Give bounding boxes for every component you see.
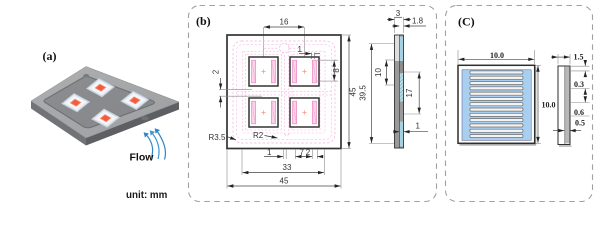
chip TR — [290, 57, 319, 86]
dim 8 line — [333, 61, 335, 81]
dim 1 top-right: ext lines — [311, 53, 313, 60]
C side bar — [558, 66, 570, 145]
recessed area — [44, 76, 155, 128]
svg-text:1: 1 — [267, 148, 272, 157]
hatched segment — [400, 73, 404, 102]
svg-text:R2: R2 — [253, 131, 264, 140]
inlet hole top — [83, 74, 89, 77]
C dim 1.5: ext lines — [557, 54, 559, 65]
C blue area — [462, 70, 531, 141]
pink U-turn bottom center — [285, 134, 289, 136]
C dim 10.0 top: ext lines — [457, 50, 459, 64]
extension line 16 right (through TR chip center) — [304, 27, 306, 72]
dim 17 line — [418, 73, 420, 114]
svg-text:2: 2 — [306, 148, 311, 157]
C dim 0.6 arrows — [584, 97, 586, 102]
dim 17: ext lines — [404, 71, 421, 73]
chip TL — [249, 57, 278, 86]
inlet circle top center — [280, 43, 290, 53]
bottom connectors — [244, 132, 284, 134]
side view glass column — [395, 35, 400, 148]
extension line 16 left (through TL chip center) — [263, 27, 265, 72]
dim 10: ext lines — [385, 59, 394, 61]
plate side face lower-left — [31, 101, 86, 146]
chip top — [87, 79, 114, 97]
pink channel horizontal lines middle — [237, 91, 331, 93]
flow arrows — [144, 128, 166, 159]
dim 3: ext lines — [394, 17, 396, 33]
dim 1 leader line with arrow — [299, 53, 311, 55]
C dim 1.5 line — [551, 56, 558, 58]
chip right — [122, 92, 149, 110]
C side bar bottom shadow — [559, 145, 572, 147]
outer pink contour — [233, 41, 335, 143]
svg-text:45: 45 — [280, 177, 289, 186]
dim 1.8 — [392, 25, 399, 27]
svg-text:33: 33 — [283, 163, 292, 172]
inner pink contour — [237, 45, 332, 140]
panel b dashed border — [189, 6, 437, 202]
svg-text:0.5: 0.5 — [575, 119, 585, 128]
dim 45 line — [228, 185, 341, 187]
svg-text:2: 2 — [212, 69, 221, 74]
svg-text:R3.5: R3.5 — [209, 133, 226, 142]
right 45 dim: ext lines — [341, 34, 351, 36]
chip BL — [249, 98, 278, 127]
C dim 10.0 right line — [537, 66, 539, 143]
svg-text:0.3: 0.3 — [574, 80, 584, 89]
svg-text:10: 10 — [374, 68, 383, 77]
dim 2 vertical line with outside arrows — [220, 78, 222, 89]
dark segment — [400, 61, 404, 73]
svg-text:1: 1 — [298, 45, 303, 54]
chip symbol — [62, 79, 148, 127]
outlet hole right — [141, 116, 149, 120]
side view right column segments — [400, 35, 404, 148]
panel C dashed border — [446, 6, 593, 202]
svg-text:(C): (C) — [458, 15, 475, 29]
svg-text:(b): (b) — [196, 14, 211, 28]
C dim 10.0 top line — [459, 58, 535, 60]
blue segment bottom — [400, 122, 404, 147]
dim 1 bottom side — [394, 131, 399, 133]
dim 2 left: ext lines — [219, 89, 252, 91]
dim 45 right line — [348, 36, 350, 149]
dim line 16 — [264, 26, 304, 28]
39.5 dim ext lines — [369, 43, 394, 45]
chip BR — [290, 98, 319, 127]
dim 45 bottom: ext lines — [226, 149, 228, 189]
svg-text:1.5: 1.5 — [574, 53, 584, 62]
bottom dims: ext lines — [283, 149, 285, 159]
svg-text:1.8: 1.8 — [412, 17, 424, 26]
plate side face lower-right — [86, 102, 179, 146]
svg-text:1: 1 — [416, 122, 421, 131]
svg-text:39.5: 39.5 — [359, 85, 368, 101]
svg-text:10.0: 10.0 — [490, 51, 504, 60]
C shadow bottom/right — [460, 144, 537, 146]
side view outline — [395, 35, 404, 148]
svg-text:10.0: 10.0 — [542, 101, 556, 110]
C dim 0.3 arrows — [584, 61, 586, 66]
svg-text:3: 3 — [396, 9, 401, 18]
svg-text:8: 8 — [332, 68, 341, 73]
inlet side dashes — [264, 47, 279, 49]
svg-text:Flow: Flow — [130, 152, 155, 164]
dim 39.5 line — [371, 44, 373, 143]
dim 3 line outside arrows — [387, 19, 394, 21]
dim 8 right: ext lines — [317, 59, 338, 61]
chip bottom — [92, 109, 119, 127]
C stripes serpentine — [470, 71, 523, 138]
chip left — [62, 94, 89, 112]
C outer square — [458, 65, 535, 143]
svg-text:17: 17 — [405, 88, 414, 97]
svg-text:(a): (a) — [43, 49, 57, 63]
svg-text:unit: mm: unit: mm — [126, 190, 168, 201]
dim 33: ext lines — [241, 149, 243, 175]
pink channel wall lines (columns) — [243, 51, 325, 134]
svg-text:0.6: 0.6 — [574, 108, 584, 117]
C right ext lines — [571, 65, 590, 67]
top connectors — [244, 50, 284, 52]
svg-text:45: 45 — [349, 87, 358, 96]
svg-text:7: 7 — [300, 148, 305, 157]
big square 45x45 — [227, 35, 341, 149]
dim 10 line — [385, 61, 387, 85]
dim 33 line — [243, 172, 324, 174]
plate top surface — [31, 67, 179, 139]
C side bar layered column — [565, 66, 570, 145]
C dim 0.5 arrows — [553, 130, 564, 132]
svg-text:16: 16 — [280, 18, 289, 27]
blue segment top — [400, 37, 404, 62]
